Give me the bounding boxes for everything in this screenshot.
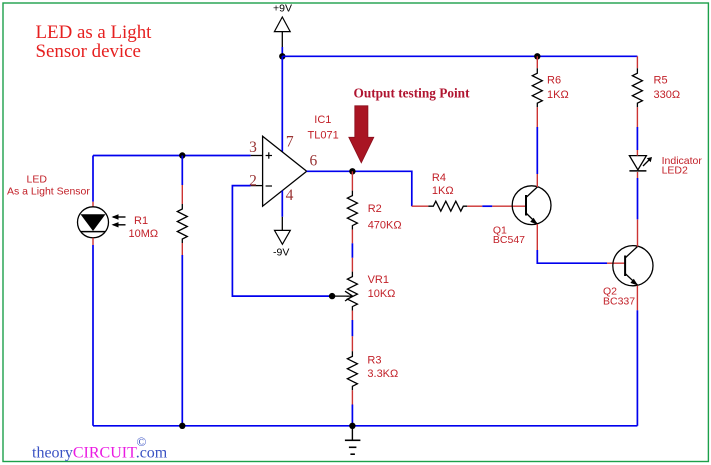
resistor R1	[129, 185, 188, 255]
wire +9V to node	[281, 47, 283, 56]
power +9V	[273, 3, 292, 48]
node supply junction	[279, 53, 285, 59]
resistor R4	[412, 172, 483, 211]
LED2 indicator	[629, 155, 702, 177]
svg-text:R3: R3	[367, 355, 381, 367]
potentiometer VR1	[332, 258, 395, 320]
svg-text:3.3KΩ: 3.3KΩ	[367, 368, 398, 380]
light arrow 1	[112, 214, 126, 219]
wire LED branch upper	[92, 156, 94, 202]
svg-text:IC1: IC1	[314, 114, 331, 126]
svg-text:BC337: BC337	[603, 295, 635, 307]
LED D1 sensor	[78, 202, 109, 245]
svg-text:R1: R1	[134, 215, 148, 227]
svg-text:+9V: +9V	[273, 3, 292, 15]
wire R3 to ground rail	[351, 405, 353, 426]
wire R2 to VR1	[351, 243, 353, 257]
wire R1 lower	[181, 255, 183, 426]
svg-text:LED2: LED2	[662, 165, 688, 177]
svg-text:As a Light Sensor: As a Light Sensor	[7, 186, 90, 198]
svg-text:330Ω: 330Ω	[654, 89, 681, 101]
svg-text:2: 2	[249, 172, 257, 189]
wire ground rail	[93, 425, 637, 427]
wire Q1 collector to R6	[536, 174, 538, 187]
resistor R6	[532, 56, 568, 127]
wire LED2 to R5	[636, 150, 638, 156]
wire LED branch lower	[92, 245, 94, 426]
svg-text:R2: R2	[368, 203, 382, 215]
wire pin7 supply	[281, 56, 283, 152]
svg-text:R5: R5	[654, 74, 668, 86]
svg-text:theoryCIRCUIT.com: theoryCIRCUIT.com	[32, 444, 168, 461]
svg-text:6: 6	[310, 153, 318, 170]
logo theoryCIRCUIT.com	[32, 434, 168, 461]
transistor Q1 BC547	[493, 186, 551, 246]
ground	[345, 426, 361, 454]
node rail R1	[179, 423, 185, 429]
wire VR1 to R3	[351, 320, 353, 336]
svg-text:R6: R6	[547, 74, 561, 86]
transistor Q2 BC337	[603, 246, 653, 308]
svg-text:BC547: BC547	[493, 234, 525, 246]
test point arrow	[349, 106, 374, 163]
svg-text:-9V: -9V	[273, 246, 289, 258]
node R6 tap	[534, 53, 540, 59]
wire feedback pin2 to VR1 wiper	[232, 186, 332, 297]
resistor R2	[347, 171, 401, 243]
svg-text:7: 7	[286, 134, 294, 151]
light arrow 2	[112, 222, 126, 227]
wire pin4	[281, 191, 283, 217]
title	[36, 22, 153, 62]
svg-text:1KΩ: 1KΩ	[547, 89, 569, 101]
node wiper junction	[329, 293, 335, 299]
wire input top	[93, 155, 251, 157]
svg-text:TL071: TL071	[308, 129, 339, 141]
svg-text:Sensor device: Sensor device	[36, 41, 141, 62]
op-amp U1 TL071	[251, 136, 307, 206]
svg-text:LED as a Light: LED as a Light	[36, 22, 153, 43]
wire top rail	[282, 55, 637, 57]
svg-text:3: 3	[249, 139, 257, 156]
wire Q2 collector to LED2	[637, 219, 639, 246]
svg-text:1KΩ: 1KΩ	[432, 185, 454, 197]
resistor R5	[632, 56, 680, 127]
label IC1 TL071	[308, 114, 339, 141]
node output test point	[349, 168, 355, 174]
resistor R3	[347, 336, 398, 404]
svg-text:4: 4	[286, 187, 294, 204]
node R1 tap	[179, 152, 185, 158]
LED sensor label	[7, 173, 90, 197]
node rail ground	[349, 423, 355, 429]
svg-text:R4: R4	[432, 172, 446, 184]
wire R1 upper	[181, 156, 183, 186]
wire R4 to Q1 base	[482, 205, 492, 207]
wire Q2 emitter to rail	[636, 286, 638, 311]
svg-text:Output testing Point: Output testing Point	[354, 86, 471, 101]
power -9V	[273, 217, 290, 258]
svg-text:VR1: VR1	[368, 274, 389, 286]
svg-text:470KΩ: 470KΩ	[368, 220, 402, 232]
wire Q1 emitter to Q2 base	[536, 224, 538, 250]
svg-text:10KΩ: 10KΩ	[368, 288, 396, 300]
wire output	[307, 171, 412, 206]
svg-text:LED: LED	[27, 173, 48, 185]
svg-text:10MΩ: 10MΩ	[129, 228, 159, 240]
